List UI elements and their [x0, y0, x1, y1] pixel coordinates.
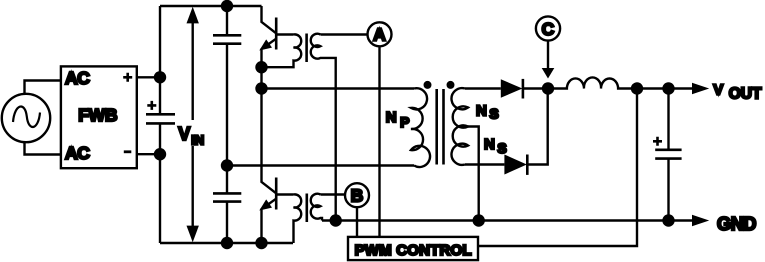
- node junction dot output cap bottom: [662, 214, 674, 226]
- wire Q1 base: [276, 33, 293, 35]
- capacitor output: [667, 89, 669, 221]
- AC source circle: [2, 94, 50, 142]
- wire D2 cathode up to output node: [527, 89, 547, 165]
- wire D1 cathode to output node: [523, 87, 548, 89]
- wire node C probe arrow: [547, 40, 549, 69]
- node junction dot Q2 emitter bottom rail: [255, 237, 267, 249]
- wire FWB + output: [137, 76, 160, 78]
- svg-text:AC: AC: [65, 68, 90, 88]
- transformer T3 polarity dot secondary: [447, 81, 455, 89]
- transformer T2 core: [305, 194, 308, 223]
- svg-text:A: A: [373, 25, 386, 45]
- node junction dot center tap on ground rail: [473, 214, 485, 226]
- wire node A to PWM control: [378, 46, 380, 237]
- wire FWB - output: [137, 153, 160, 155]
- svg-text:V: V: [713, 82, 723, 99]
- wire cap midpoint rail to primary: [227, 164, 414, 166]
- wire top rail: [160, 5, 262, 7]
- transistor Q1: [259, 6, 276, 89]
- wire AC source bottom to FWB: [25, 142, 61, 154]
- wire left bus lower: [159, 123, 161, 243]
- node junction dot rectified output: [542, 82, 554, 94]
- node junction dot bottom rail cap: [221, 237, 233, 249]
- transformer T1 drive secondary winding: [311, 34, 336, 221]
- svg-text:N: N: [476, 102, 487, 119]
- node junction dot output cap top: [662, 82, 674, 94]
- transistor Q2: [259, 89, 276, 244]
- label + bulk cap: [147, 101, 156, 110]
- svg-text:FWB: FWB: [78, 105, 117, 125]
- wire ground rail: [322, 219, 692, 221]
- node junction dot top rail cap: [221, 0, 233, 12]
- transformer T2 drive primary winding: [294, 194, 302, 243]
- label - FWB terminal: [124, 150, 132, 153]
- node junction dot T1 return on ground rail: [330, 214, 342, 226]
- svg-text:B: B: [351, 186, 364, 206]
- svg-text:N: N: [484, 136, 495, 153]
- wire Q2 base: [276, 193, 293, 195]
- wire left bus upper: [159, 6, 161, 114]
- wire feedback from output node to PWM control: [478, 89, 637, 247]
- svg-text:N: N: [386, 109, 397, 126]
- transformer T3 core: [437, 89, 444, 165]
- label + FWB terminal: [123, 73, 132, 82]
- node A circle: [368, 22, 392, 46]
- wire node B to PWM control: [356, 207, 358, 237]
- svg-text:PWM CONTROL: PWM CONTROL: [355, 242, 472, 259]
- node junction dot cap midpoint: [221, 159, 233, 171]
- AC source sine wave: [13, 106, 40, 126]
- transformer T3 primary winding Np: [411, 88, 430, 167]
- wire AC source top to FWB: [25, 81, 61, 94]
- svg-text:S: S: [497, 140, 506, 156]
- Vin measurement arrow: [191, 21, 193, 228]
- transformer T2 drive secondary winding: [311, 194, 322, 221]
- svg-text:OUT: OUT: [729, 86, 762, 103]
- transformer T1 drive primary winding: [262, 34, 302, 67]
- PWM control box: [348, 237, 478, 260]
- Vout arrow: [692, 83, 709, 94]
- inductor L1: [548, 77, 637, 88]
- wire secondary bottom to D2: [465, 163, 504, 165]
- wire secondary center tap: [468, 127, 479, 221]
- node junction dot Q1 emitter / T1 return: [255, 61, 267, 73]
- transformer T1 core: [305, 34, 308, 63]
- capacitor lower half-bridge C2: [226, 166, 228, 244]
- diode D1: [501, 79, 523, 97]
- label + output cap: [653, 137, 662, 146]
- wire T2 secondary top to node B: [320, 193, 345, 195]
- wire bottom rail: [160, 242, 293, 244]
- GND arrow: [692, 215, 709, 226]
- wire half-bridge midpoint to primary: [262, 87, 415, 89]
- svg-text:IN: IN: [191, 133, 204, 148]
- node junction dot FWB+: [154, 71, 166, 83]
- svg-text:P: P: [400, 114, 409, 130]
- svg-text:V: V: [178, 124, 190, 144]
- capacitor upper half-bridge C1: [226, 6, 228, 166]
- node B circle: [345, 183, 369, 207]
- wire secondary top to D1: [465, 87, 501, 89]
- svg-text:GND: GND: [717, 214, 756, 234]
- diode D2: [504, 155, 526, 175]
- node C circle: [536, 16, 560, 40]
- node junction dot half-bridge midpoint: [255, 82, 267, 94]
- svg-text:AC: AC: [65, 143, 90, 163]
- node junction dot FWB-: [154, 148, 166, 160]
- capacitor bulk input: [146, 114, 175, 123]
- svg-text:S: S: [489, 105, 498, 121]
- transformer T3 polarity dot primary: [424, 81, 432, 89]
- wire T1 secondary top to node A: [320, 33, 367, 35]
- node junction dot feedback tap: [631, 82, 643, 94]
- transformer T3 secondary winding Ns upper and lower: [451, 88, 468, 165]
- svg-text:C: C: [542, 19, 555, 39]
- rectifier FWB box: [61, 66, 137, 168]
- wire output node to Vout arrow: [637, 87, 692, 89]
